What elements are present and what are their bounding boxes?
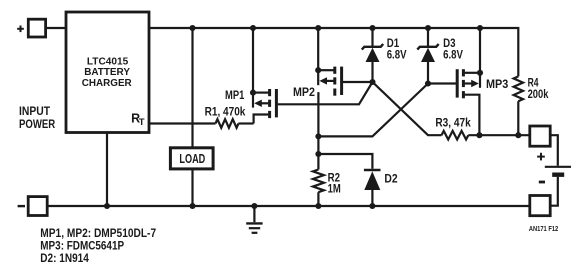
svg-text:200k: 200k — [528, 87, 549, 101]
svg-text:LTC4015: LTC4015 — [87, 56, 129, 67]
svg-text:AN171 F12: AN171 F12 — [529, 226, 558, 233]
svg-text:BATTERY: BATTERY — [84, 67, 130, 78]
svg-text:6.8V: 6.8V — [387, 48, 407, 62]
svg-text:1M: 1M — [328, 182, 341, 196]
svg-text:D2: 1N914: D2: 1N914 — [40, 251, 89, 265]
svg-text:INPUT: INPUT — [19, 104, 51, 118]
svg-text:R3, 47k: R3, 47k — [435, 116, 471, 130]
svg-text:6.8V: 6.8V — [443, 48, 463, 62]
svg-text:POWER: POWER — [19, 117, 55, 131]
svg-text:T: T — [139, 117, 145, 128]
svg-text:CHARGER: CHARGER — [82, 78, 133, 89]
svg-text:D2: D2 — [384, 171, 397, 185]
svg-text:MP2: MP2 — [293, 85, 315, 99]
svg-text:LOAD: LOAD — [179, 151, 205, 166]
svg-text:MP1: MP1 — [225, 88, 245, 102]
svg-text:MP3: MP3 — [486, 77, 509, 91]
svg-text:R1, 470k: R1, 470k — [205, 105, 246, 119]
